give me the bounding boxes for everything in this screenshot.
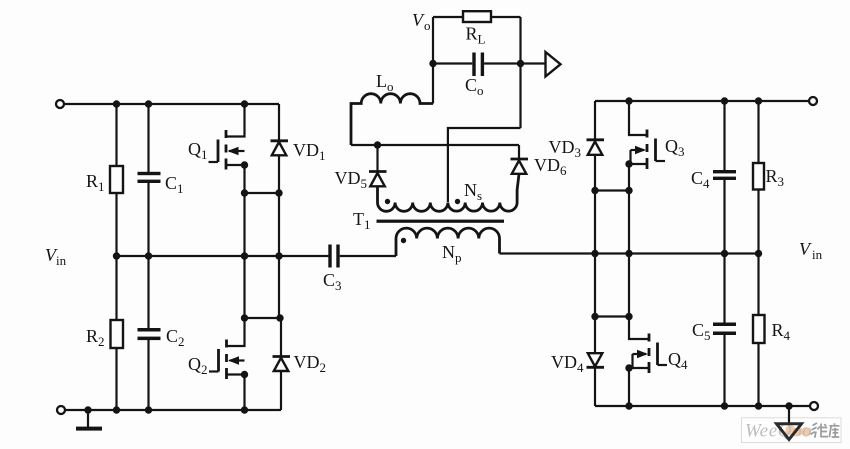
wire rectifier cathode bus <box>351 144 519 146</box>
wire right columns to mid rail <box>594 191 596 317</box>
svg-text:Q4: Q4 <box>668 349 688 372</box>
transistor Q1 (N-MOSFET, high side left) <box>209 104 245 193</box>
diode VD6 (rectifier, cathode up) <box>511 145 529 174</box>
svg-text:Ns: Ns <box>464 180 482 203</box>
wire output right column <box>519 17 521 128</box>
wire to output arrow <box>521 62 546 64</box>
node dots left <box>84 100 283 413</box>
svg-text:R3: R3 <box>766 166 785 189</box>
svg-text:C3: C3 <box>323 270 342 293</box>
svg-text:Co: Co <box>465 75 484 98</box>
ground (right, triangle type) <box>777 406 802 440</box>
svg-text:Lo: Lo <box>376 71 394 94</box>
svg-text:VD2: VD2 <box>294 352 327 375</box>
diode VD1 (body diode, cathode up) <box>271 104 289 193</box>
node primary phase dot <box>401 238 406 243</box>
resistor R1 <box>110 104 123 256</box>
resistor R3 <box>753 101 764 254</box>
svg-text:VD4: VD4 <box>551 352 584 375</box>
svg-text:Q1: Q1 <box>188 139 208 162</box>
resistor R2 <box>111 256 124 410</box>
wire output top right <box>491 16 521 18</box>
wire link lower junction right <box>595 315 629 317</box>
svg-text:RL: RL <box>466 24 486 47</box>
node secondary phase dot (center) <box>455 199 460 204</box>
transistor Q3 (N-MOSFET mirrored, high side right) <box>629 101 665 191</box>
capacitor C4 <box>713 101 736 254</box>
output arrow (triangle) <box>546 52 561 77</box>
terminal top-right input <box>809 97 817 105</box>
svg-text:C5: C5 <box>692 320 711 343</box>
transistor Q4 (N-MOSFET mirrored, low side right) <box>629 317 667 407</box>
diode VD4 (cathode down) <box>587 317 605 407</box>
wire output top left <box>433 16 463 18</box>
svg-text:C2: C2 <box>166 326 185 349</box>
ground (left, bar type) <box>76 410 102 431</box>
capacitor C2 <box>138 256 161 410</box>
svg-text:R1: R1 <box>86 171 105 194</box>
capacitor Co <box>433 53 521 77</box>
svg-text:VD5: VD5 <box>335 168 368 191</box>
wire output left column <box>432 17 434 104</box>
capacitor C1 <box>138 104 161 256</box>
transformer secondary winding Ns <box>378 174 520 211</box>
svg-text:Q3: Q3 <box>665 136 685 159</box>
wire link lower junction <box>245 317 282 319</box>
svg-text:C4: C4 <box>691 168 710 191</box>
svg-text:Np: Np <box>442 242 462 265</box>
capacitor C3 (coupling) <box>328 245 396 268</box>
svg-text:R4: R4 <box>772 320 791 343</box>
capacitor C5 <box>713 254 736 407</box>
diode VD2 (cathode up) <box>273 318 291 410</box>
svg-text:T1: T1 <box>353 209 371 232</box>
wire top rail right <box>595 100 809 102</box>
wire center tap riser <box>448 128 521 202</box>
wire top rail left <box>65 103 280 105</box>
wire bottom rail right <box>595 405 810 407</box>
transformer core <box>377 220 505 223</box>
svg-text:V: V <box>799 239 812 259</box>
svg-text:in: in <box>812 247 823 262</box>
wire link Q1 source to VD1 anode <box>245 192 280 194</box>
svg-text:in: in <box>56 253 67 268</box>
terminal bottom-right input <box>810 402 818 410</box>
svg-text:VD3: VD3 <box>549 137 582 160</box>
terminal bottom-left input <box>57 406 65 414</box>
resistor R4 <box>753 254 765 407</box>
diode VD5 (rectifier, cathode up) <box>369 145 387 186</box>
svg-text:Q2: Q2 <box>188 354 208 377</box>
svg-text:R2: R2 <box>86 326 105 349</box>
wire mid rail left <box>117 255 329 257</box>
diode VD3 (cathode up) <box>587 101 605 191</box>
svg-text:VD1: VD1 <box>293 140 326 163</box>
svg-text:o: o <box>424 18 431 33</box>
wire bottom rail left <box>66 409 282 411</box>
transistor Q2 (N-MOSFET, low side left) <box>209 318 245 410</box>
resistor RL (load) <box>463 11 491 22</box>
watermark WeeQoo 维库 <box>742 418 842 443</box>
inductor Lo <box>351 94 433 145</box>
node secondary phase dot (left) <box>385 199 390 204</box>
node dots right <box>591 97 792 409</box>
terminal top-left input <box>56 100 64 108</box>
svg-text:VD6: VD6 <box>534 155 567 178</box>
node dots middle <box>374 60 524 149</box>
transformer T1 primary winding Np <box>396 228 500 256</box>
svg-text:C1: C1 <box>165 173 184 196</box>
wire link VD3/Q3 lower <box>595 189 629 191</box>
wire mid rail right <box>500 252 759 254</box>
wire half-bridge mid columns upper <box>243 193 245 318</box>
